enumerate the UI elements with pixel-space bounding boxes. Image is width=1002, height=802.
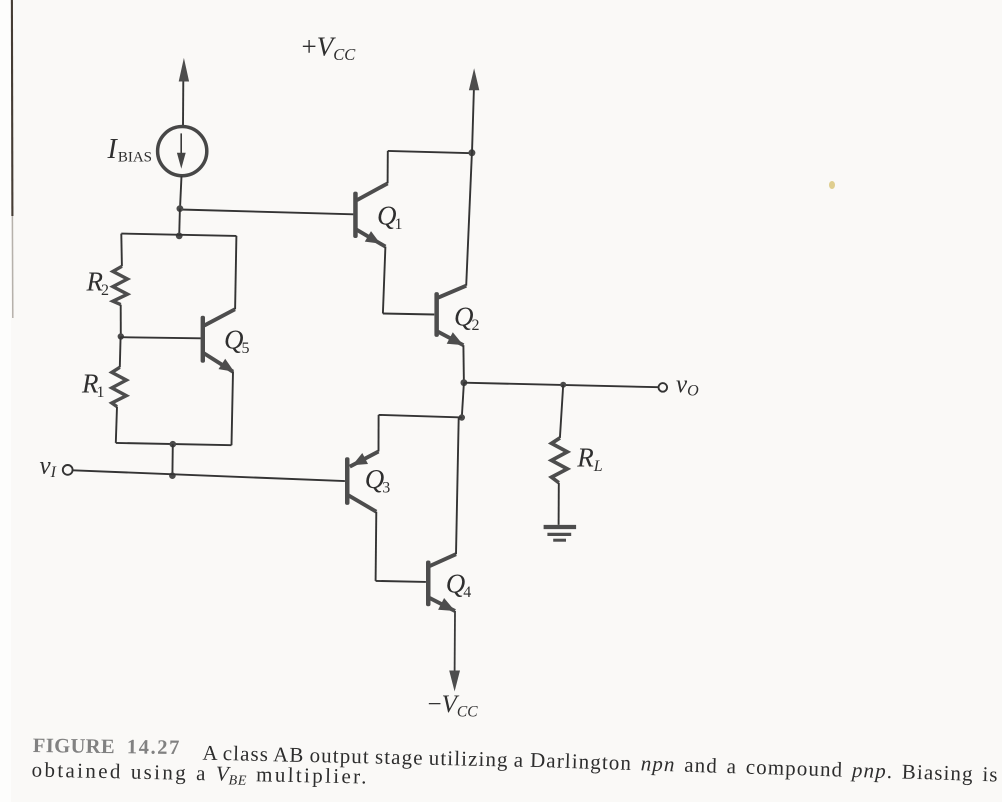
svg-text:vI: vI [40, 453, 57, 482]
wire: Q1 collector up [387, 151, 389, 184]
svg-text:IBIAS: IBIAS [107, 134, 153, 166]
wire: Q4 emitter down to -VCC [449, 611, 460, 692]
wire: v_I to Q3 base [73, 470, 345, 481]
current source I_BIAS circle [158, 127, 207, 176]
wire: Q5 emitter down to bottom rail [232, 372, 234, 446]
node D [170, 441, 177, 448]
resistor R1 [112, 367, 127, 406]
wire: R2 to node C [120, 305, 122, 337]
wire: R_L to ground [558, 483, 560, 525]
wire: node A down to node B [178, 209, 181, 236]
svg-text:Q2: Q2 [454, 302, 480, 335]
wire: Q4 collector up to node I [456, 418, 459, 555]
svg-text:Q4: Q4 [446, 569, 472, 602]
wire: current source to node A [180, 176, 182, 209]
svg-text:−VCC: −VCC [428, 691, 479, 721]
wire: node C down to R1 [119, 337, 122, 368]
svg-text:Q3: Q3 [365, 464, 391, 497]
wire: node A to Q1 base [180, 210, 353, 215]
svg-text:+VCC: +VCC [302, 32, 357, 65]
svg-text:Darlington npn and a compound: Darlington npn and a compound pnp. Biasi… [530, 748, 999, 787]
node C [118, 333, 124, 339]
input terminal v_I [63, 465, 73, 475]
transistor Q3 [345, 452, 379, 512]
svg-text:Q5: Q5 [224, 325, 250, 358]
node I [459, 414, 465, 420]
wire: output node to v_O terminal [464, 383, 659, 388]
svg-text:vO: vO [676, 371, 699, 400]
svg-text:Q1: Q1 [377, 201, 403, 234]
+VCC supply arrow (right rail) [469, 68, 479, 153]
ground symbol [544, 527, 577, 540]
wire: Q3 emitter vertical [378, 415, 380, 452]
wire: Q1 emitter to Q2 base [383, 314, 434, 315]
wire: top horizontal to rail node F [388, 151, 472, 153]
wire: Q3 emitter horizontal [379, 415, 462, 418]
node F [468, 149, 475, 156]
svg-text:R1: R1 [81, 369, 105, 402]
wire: R1 to bottom rail [116, 407, 117, 443]
node B [176, 233, 183, 240]
transistor Q1 [353, 183, 387, 246]
wire: node D to node E [171, 444, 173, 476]
wire: VBE-multiplier bottom rail [116, 443, 232, 445]
output terminal v_O [659, 383, 668, 392]
wire: node H down to R_L [560, 385, 563, 438]
svg-text:FIGURE 14.27: FIGURE 14.27 [33, 735, 181, 759]
left page-spine line [11, 0, 14, 318]
transistor Q5 [201, 309, 235, 371]
svg-text:R2: R2 [86, 267, 110, 300]
node A [177, 205, 184, 212]
wire: Q2 emitter down to output node G [462, 345, 465, 383]
node G (output) [461, 379, 468, 386]
resistor R2 [113, 266, 128, 304]
wire: node G down to node I [462, 383, 464, 418]
wire: top rail to R2 [120, 234, 123, 267]
wire: Q1 emitter down [383, 247, 386, 314]
wire: node C to Q5 base [121, 337, 201, 338]
svg-text:RL: RL [576, 443, 603, 476]
+VCC supply arrow (top left) [179, 58, 189, 127]
wire: Q3 collector to Q4 base [376, 581, 426, 582]
wire: Q3 collector down [375, 512, 378, 581]
node E [169, 472, 176, 479]
transistor Q4 [426, 554, 456, 611]
wire: VBE-multiplier top rail [121, 234, 236, 236]
svg-text:obtained using a VBE multiplie: obtained using a VBE multiplier. [31, 758, 369, 792]
wire: rail node F down to Q2 collector [466, 153, 472, 286]
transistor Q2 [434, 286, 466, 346]
I_BIAS internal arrow [177, 133, 186, 168]
stray yellow speck [829, 181, 835, 189]
node H (R_L tap) [560, 382, 566, 388]
resistor R_L [552, 438, 568, 483]
wire: Q5 collector up to top rail [235, 236, 236, 309]
